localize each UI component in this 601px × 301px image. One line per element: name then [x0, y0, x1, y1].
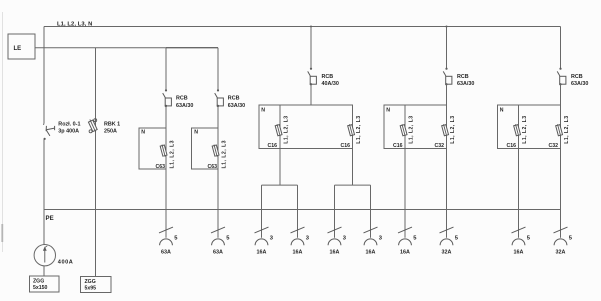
wire branch 3a: [279, 105, 281, 149]
svg-text:N: N: [194, 129, 198, 135]
svg-text:C16: C16: [506, 143, 516, 149]
svg-text:63A: 63A: [161, 250, 171, 256]
svg-text:N: N: [141, 129, 145, 135]
svg-text:L1, L2, L3: L1, L2, L3: [356, 115, 362, 143]
svg-text:ZGG: ZGG: [33, 278, 44, 284]
wire branch 3a to splitter: [279, 149, 281, 186]
socket outlet 16A 3a-1: [255, 227, 274, 256]
svg-text:RCB: RCB: [176, 96, 188, 102]
svg-text:C63: C63: [155, 164, 165, 170]
svg-text:63A/30: 63A/30: [176, 103, 193, 109]
svg-text:L1, L2, L3: L1, L2, L3: [564, 115, 570, 143]
svg-text:LE: LE: [14, 46, 22, 52]
svg-text:PE: PE: [46, 215, 54, 222]
fuse switch RBK 1 250A: [88, 118, 98, 133]
wire drop section 4: [446, 27, 448, 69]
svg-text:63A: 63A: [213, 250, 223, 256]
wire main incomer vertical: [43, 27, 45, 124]
svg-text:RBK 1: RBK 1: [104, 122, 120, 128]
svg-text:400A: 400A: [58, 259, 74, 265]
wire splitter 3b right drop: [370, 185, 372, 238]
svg-text:L1, L2, L3, N: L1, L2, L3, N: [57, 21, 92, 27]
svg-text:C16: C16: [267, 143, 277, 149]
cable box ZGG 5x95: [81, 277, 112, 293]
distribution box 2: [192, 128, 219, 169]
wire RBK feeder drop: [95, 48, 97, 277]
wire splitter 3b left drop: [334, 185, 336, 238]
wire branch 3b to splitter: [352, 149, 354, 186]
svg-text:C63: C63: [207, 164, 217, 170]
distribution box 5: [498, 105, 561, 149]
socket outlet 32A section 5: [554, 227, 573, 256]
svg-text:16A: 16A: [366, 250, 376, 256]
breaker C16 branch 3b: [347, 124, 354, 137]
meter M1 (400A): [34, 245, 55, 266]
svg-text:16A: 16A: [293, 250, 303, 256]
svg-text:250A: 250A: [104, 129, 117, 135]
socket outlet 16A 3a-2: [291, 227, 310, 256]
RCD F2 RCB 63A/30: [215, 89, 224, 107]
svg-text:L1, L2, L3: L1, L2, L3: [450, 115, 456, 143]
junction top bus section 4: [446, 26, 448, 28]
wire branch 5a: [518, 105, 520, 149]
breaker C16 branch 3a: [275, 124, 282, 137]
svg-text:C32: C32: [548, 143, 558, 149]
socket outlet 63A section 2: [211, 227, 230, 256]
wire RCB F1 to box: [165, 106, 167, 128]
disconnector Q1 Rozl.0-1: [44, 123, 55, 140]
breaker C16 branch 4a: [400, 124, 407, 137]
socket outlet 16A 3b-2: [364, 227, 383, 256]
svg-text:ZGG: ZGG: [85, 279, 96, 285]
junction top bus section 3: [310, 26, 312, 28]
svg-text:C16: C16: [393, 143, 403, 149]
svg-text:L1, L2, L3: L1, L2, L3: [222, 140, 228, 168]
distribution box 4: [384, 105, 447, 149]
scan edge artifact left: [1, 12, 4, 252]
svg-text:L1, L2, L3: L1, L2, L3: [409, 115, 415, 143]
wire RCB F3 to box: [310, 84, 312, 105]
RCD F3 RCB 40A/30: [308, 68, 317, 86]
svg-text:N: N: [261, 107, 265, 113]
socket outlet 32A section 4: [440, 227, 459, 256]
RCD F4 RCB 63A/30: [443, 68, 452, 86]
wire RCB F5 to box: [560, 84, 562, 105]
wire splitter 3a left drop: [261, 185, 263, 238]
distribution box 3: [259, 105, 353, 149]
svg-text:16A: 16A: [330, 250, 340, 256]
wire LE feeder bus: [35, 47, 166, 49]
svg-text:16A: 16A: [514, 250, 524, 256]
wire LE feeder bus right segment: [166, 47, 218, 49]
svg-text:L1, L2, L3: L1, L2, L3: [522, 115, 528, 143]
socket outlet 16A section 5: [512, 227, 531, 256]
wire branch 5a to outlet: [518, 149, 520, 238]
wire branch 4a: [404, 105, 406, 149]
wire RCB F4 to box: [446, 84, 448, 105]
svg-text:Rozł. 0-1: Rozł. 0-1: [58, 122, 80, 128]
svg-text:RCB: RCB: [322, 74, 334, 80]
svg-text:RCB: RCB: [571, 74, 583, 80]
cable box ZGG 5x150: [30, 276, 60, 292]
svg-text:63A/30: 63A/30: [457, 81, 474, 87]
svg-text:40A/30: 40A/30: [322, 81, 339, 87]
svg-text:RCB: RCB: [228, 96, 240, 102]
svg-text:32A: 32A: [442, 250, 452, 256]
svg-text:5x150: 5x150: [33, 285, 48, 291]
svg-text:C16: C16: [340, 143, 350, 149]
wire branch 4b to outlet: [446, 149, 448, 238]
wire drop section 5: [560, 27, 562, 69]
wire section 1 to outlet: [165, 169, 167, 238]
breaker C63 section 2: [212, 144, 219, 157]
splitter bar 3a: [262, 184, 298, 186]
breaker C63 section 1: [160, 144, 167, 157]
breaker C32 branch 5b: [555, 124, 562, 137]
wire branch 5b to outlet: [560, 149, 562, 238]
wire RCB F2 to box: [217, 106, 219, 128]
wire meter to cable box: [43, 266, 45, 276]
distribution box 1: [139, 128, 166, 169]
wire section 2 to outlet: [217, 169, 219, 238]
svg-text:3p 400A: 3p 400A: [58, 129, 79, 135]
svg-text:N: N: [386, 107, 390, 113]
wire drop section 3: [310, 27, 312, 69]
svg-text:16A: 16A: [400, 250, 410, 256]
wire branch 4a to outlet: [404, 149, 406, 238]
svg-text:63A/30: 63A/30: [571, 81, 588, 87]
svg-text:L1, L2, L3: L1, L2, L3: [170, 140, 176, 168]
breaker C16 branch 5a: [513, 124, 520, 137]
breaker C32 branch 4b: [441, 124, 448, 137]
RCD F5 RCB 63A/30: [557, 68, 566, 86]
RCD F1 RCB 63A/30: [163, 89, 172, 107]
svg-text:63A/30: 63A/30: [228, 103, 245, 109]
svg-text:32A: 32A: [556, 250, 566, 256]
socket outlet 16A 3b-1: [328, 227, 347, 256]
wire drop section 1: [165, 48, 167, 91]
svg-text:N: N: [500, 107, 504, 113]
svg-text:L1, L2, L3: L1, L2, L3: [284, 115, 290, 143]
svg-text:RCB: RCB: [457, 74, 469, 80]
splitter bar 3b: [335, 184, 371, 186]
svg-text:C32: C32: [434, 143, 444, 149]
wire incomer below disconnector: [43, 139, 45, 245]
wire splitter 3a right drop: [297, 185, 299, 238]
box LE (supply unit): [8, 34, 35, 59]
PE bus: [44, 209, 561, 211]
wire drop section 2: [217, 48, 219, 91]
svg-text:5x95: 5x95: [85, 286, 97, 292]
wire main bus L1,L2,L3,N: [44, 26, 561, 28]
svg-text:16A: 16A: [257, 250, 267, 256]
socket outlet 16A section 4: [398, 227, 417, 256]
socket outlet 63A section 1: [159, 227, 178, 256]
